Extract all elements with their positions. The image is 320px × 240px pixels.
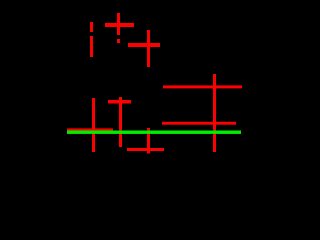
- ground bus (green wire): [67, 131, 241, 134]
- wire (horizontal red segment above green bus): [162, 122, 236, 125]
- capacitor C1 (gap in vertical red wire): [90, 22, 93, 57]
- wire junction node E (bottom cross of red wires): [127, 128, 164, 154]
- wire junction node A (cross of red wires): [105, 13, 134, 35]
- wire (short red segment on top of green bus, left): [67, 128, 113, 130]
- wire junction node C (cross of red wires, right side): [163, 74, 242, 152]
- wire stub (dash below node A): [117, 39, 120, 43]
- wire junction node D (T of red wires): [108, 97, 131, 147]
- wire junction node B (cross of red wires): [128, 30, 160, 67]
- wire (vertical red segment, left): [92, 98, 95, 152]
